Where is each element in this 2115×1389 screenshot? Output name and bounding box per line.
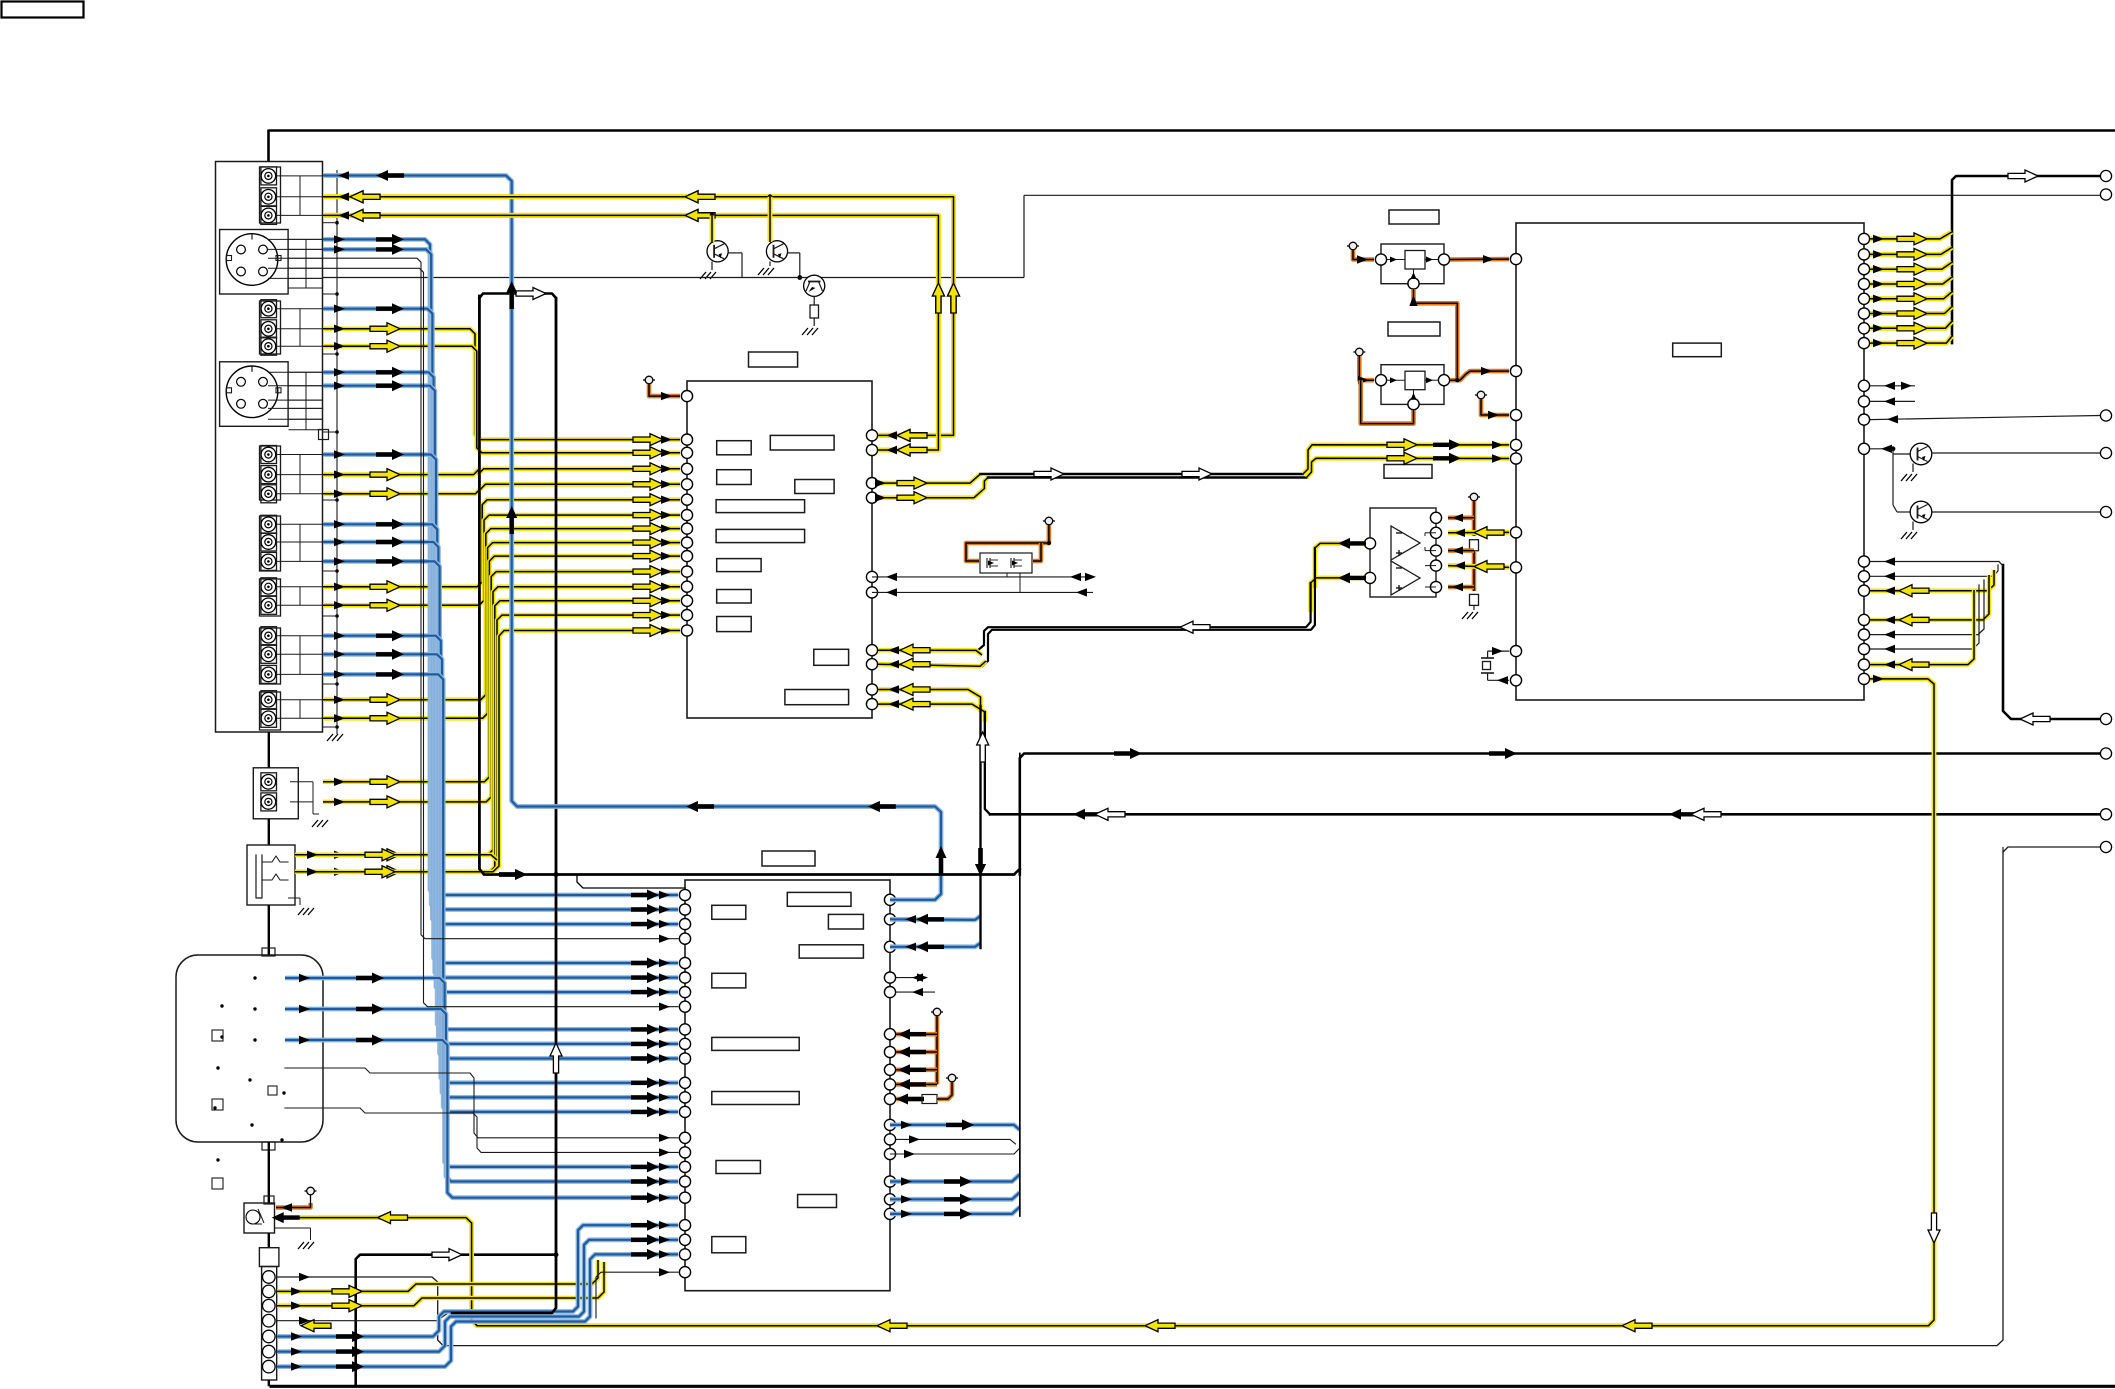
restroke yellow net B bbox=[323, 215, 938, 450]
IC351 bottom feed bbox=[1414, 289, 1458, 380]
panel internal stub wiring bbox=[277, 175, 323, 177]
regulator IC351 body bbox=[1381, 244, 1444, 284]
RCA group 3 bbox=[260, 446, 281, 500]
yellow drop to Q2 bbox=[768, 197, 773, 242]
restroke hat left leg bbox=[479, 296, 1014, 875]
panel to RCA duo link bbox=[268, 732, 270, 768]
RCA group 5 bbox=[260, 579, 281, 616]
label above op-amp bbox=[1384, 465, 1432, 479]
rear jack panel box bbox=[216, 162, 323, 733]
right bus x2003 bbox=[2003, 565, 2100, 719]
IC351 power input bbox=[1352, 249, 1354, 251]
IC U201 left pins bbox=[679, 889, 690, 900]
open up arrow on trunk bbox=[550, 1043, 562, 1073]
line A riser lower section bbox=[1019, 754, 1021, 1217]
IC U101 internal labels bbox=[717, 441, 752, 455]
yellow stub IC U301 to op-amp +A bbox=[1448, 530, 1509, 535]
IC U201 pin13 line to riser bbox=[890, 1153, 1014, 1155]
bottom pin strip bbox=[262, 1267, 277, 1381]
blue wires AV multi to IC U201 bbox=[285, 978, 678, 1167]
IC U201 body bbox=[685, 880, 890, 1291]
RCA group 6 bbox=[260, 628, 281, 684]
blue bundle panel to IC U201 bbox=[323, 239, 678, 895]
IC352 bottom loop bbox=[1361, 380, 1414, 423]
blue net main run bbox=[323, 176, 941, 900]
IC U301 top right yellow outputs bbox=[1870, 232, 1952, 239]
IC352 output to IC U301 bbox=[1450, 371, 1509, 380]
link to AV multi connector bbox=[268, 905, 270, 955]
page bottom rule bbox=[270, 1385, 2115, 1388]
DIN2 pin stubs bbox=[268, 371, 323, 373]
op-amp orange rail bbox=[1473, 500, 1475, 502]
restroke IC U101 lower input feeders bbox=[979, 706, 981, 948]
yellow loop from IC U301 pin to mic box bbox=[276, 679, 1934, 1326]
panel ground bus bbox=[336, 170, 338, 727]
thin wires AV multi to IC U201 bbox=[285, 1068, 678, 1138]
yellow net B top run bbox=[323, 215, 938, 450]
mic power bbox=[310, 1195, 312, 1207]
power feed pin3 IC U301 bbox=[1480, 398, 1482, 400]
line A to terminal y753 bbox=[1020, 754, 2100, 875]
IC U301 internal label bbox=[1673, 343, 1722, 357]
restroke blue trunk bbox=[512, 181, 935, 807]
IC U301 mid right stubs bbox=[1870, 385, 1915, 387]
IC U301 right pins bbox=[1858, 233, 1869, 244]
terminal link lower right corner bbox=[2002, 847, 2004, 852]
regulator IC352 body bbox=[1381, 365, 1444, 405]
restroke line A riser bbox=[1019, 754, 1021, 1217]
thin wires panel to IC U201 bbox=[323, 258, 678, 939]
label box above IC U101 bbox=[749, 352, 798, 367]
yellow pair IC U101 lower inputs from line B bbox=[878, 690, 981, 713]
transistor Q1 bbox=[707, 241, 728, 262]
DIN connector 1 bbox=[220, 230, 289, 295]
strip yellow wires bbox=[277, 1260, 598, 1291]
black hat path bbox=[452, 294, 556, 1314]
terminal circle right y176 bbox=[2100, 170, 2111, 181]
IC U301 left pins bbox=[1510, 254, 1521, 265]
IC352 power input bbox=[1358, 355, 1360, 357]
Q1 collector link bbox=[728, 252, 742, 254]
bus wires to IC U301 pins bbox=[1870, 561, 1999, 563]
IC U101 power feed bbox=[648, 383, 650, 385]
strip row4 link to y1313 bbox=[277, 1320, 437, 1322]
op-amp left pins bbox=[1364, 538, 1375, 549]
restroke yellow net A bbox=[323, 197, 954, 436]
op-amp right pins bbox=[1430, 512, 1441, 523]
yellow stub IC U301 to op-amp +B bbox=[1448, 566, 1509, 568]
yellow stubs for IC U101 low pins bbox=[497, 615, 680, 860]
panel small aux connector bbox=[319, 430, 329, 440]
IC U201 blue outputs right bbox=[890, 1125, 1020, 1130]
RCA duo below panel bbox=[253, 768, 298, 819]
link to mic box bbox=[268, 1142, 270, 1203]
orange power block right of IC U201 bbox=[936, 1015, 938, 1017]
FET symbols bbox=[986, 558, 988, 568]
black feed line top right bbox=[1952, 176, 2100, 343]
op-amp IC371 body bbox=[1370, 508, 1436, 597]
IC U101 left pins bbox=[681, 434, 692, 445]
blue feeds to IC U201 pins 2-3 bbox=[890, 916, 981, 920]
transistor Q3 bbox=[804, 275, 825, 296]
RCA group 4 bbox=[260, 516, 281, 571]
op-amp internal stubs bbox=[1425, 532, 1436, 534]
orange resistor feed pin10 bbox=[896, 1097, 922, 1102]
link to square connector bbox=[268, 1233, 270, 1248]
microphone box bbox=[244, 1203, 275, 1233]
title box bbox=[2, 2, 84, 18]
border left drop bbox=[267, 130, 270, 163]
yellow drop to Q1 bbox=[710, 215, 715, 242]
IC U201 right pins bbox=[884, 894, 895, 905]
DIN1 pin stubs bbox=[268, 238, 323, 240]
yellow pair op-amp to IC U101 inputs bbox=[1315, 543, 1364, 588]
op-amp A triangle bbox=[1391, 526, 1420, 560]
restroke Q1 Q2 yellow drops bbox=[710, 215, 715, 242]
thin net strip row1 to terminal y847 bbox=[277, 847, 2100, 1346]
link to headphone jack bbox=[268, 819, 270, 845]
headphone jack bbox=[247, 845, 295, 905]
junction dots on yellow nets bbox=[768, 194, 773, 199]
lower black link y1254 bbox=[356, 1255, 556, 1386]
Q2 collector link bbox=[788, 252, 800, 254]
transistor Q301 bbox=[1910, 443, 1932, 465]
op-amp B triangle bbox=[1391, 561, 1420, 595]
IC U301 body bbox=[1516, 223, 1864, 700]
strip blue wires to IC U201 bbox=[277, 1225, 678, 1336]
IC U201 internal labels bbox=[712, 905, 746, 919]
headphone jack yellow wires bbox=[295, 855, 497, 860]
open up arrow on feeder pair bbox=[977, 732, 989, 762]
RCA group 2 bbox=[260, 301, 281, 354]
Q3 emitter resistor bbox=[813, 296, 815, 305]
strip to bottom rule bbox=[268, 1380, 270, 1386]
FET power loop bbox=[1048, 524, 1050, 526]
label box above IC U201 bbox=[762, 851, 815, 866]
mic ground bbox=[275, 1227, 311, 1229]
RCA group 1 bbox=[260, 167, 281, 223]
IC U101 right pins bbox=[866, 430, 877, 441]
IC U301 line to terminal y415 bbox=[1870, 416, 2100, 420]
AV multi connector bbox=[176, 955, 323, 1142]
label between regulators bbox=[1388, 322, 1440, 336]
RCA group 7 bbox=[260, 692, 281, 730]
signal line from panel DIN to right terminal bbox=[323, 277, 1024, 279]
restroke hat right leg bbox=[452, 298, 556, 1313]
square connector bbox=[259, 1248, 279, 1267]
line B to terminal y814 bbox=[990, 813, 2100, 816]
yellow pair IC U101 to IC U301 bbox=[878, 474, 980, 483]
branch to IC U201 top bbox=[577, 875, 685, 889]
IC U101 power pin bbox=[681, 391, 692, 402]
yellow net A top run bbox=[323, 197, 954, 436]
IC U101 body bbox=[687, 381, 872, 718]
crystal X301 bbox=[1488, 650, 1509, 652]
IC351 output to IC U301 bbox=[1450, 257, 1509, 262]
terminal circle right y194 bbox=[2100, 189, 2111, 200]
transistor Q2 bbox=[766, 241, 787, 262]
transistor network right bbox=[1870, 448, 1893, 450]
FET block body bbox=[980, 553, 1032, 573]
label above regulator IC351 bbox=[1389, 210, 1439, 224]
border top bbox=[269, 129, 2115, 132]
IC U201 pin23 stub bbox=[596, 1272, 678, 1318]
transistor Q302 bbox=[1893, 505, 1897, 512]
DIN connector 2 bbox=[220, 362, 289, 427]
FET gate lines bbox=[872, 576, 1094, 578]
yellow bundle panel to IC U101 bbox=[323, 329, 680, 440]
IC U201 pin stubs right top bbox=[896, 977, 925, 979]
